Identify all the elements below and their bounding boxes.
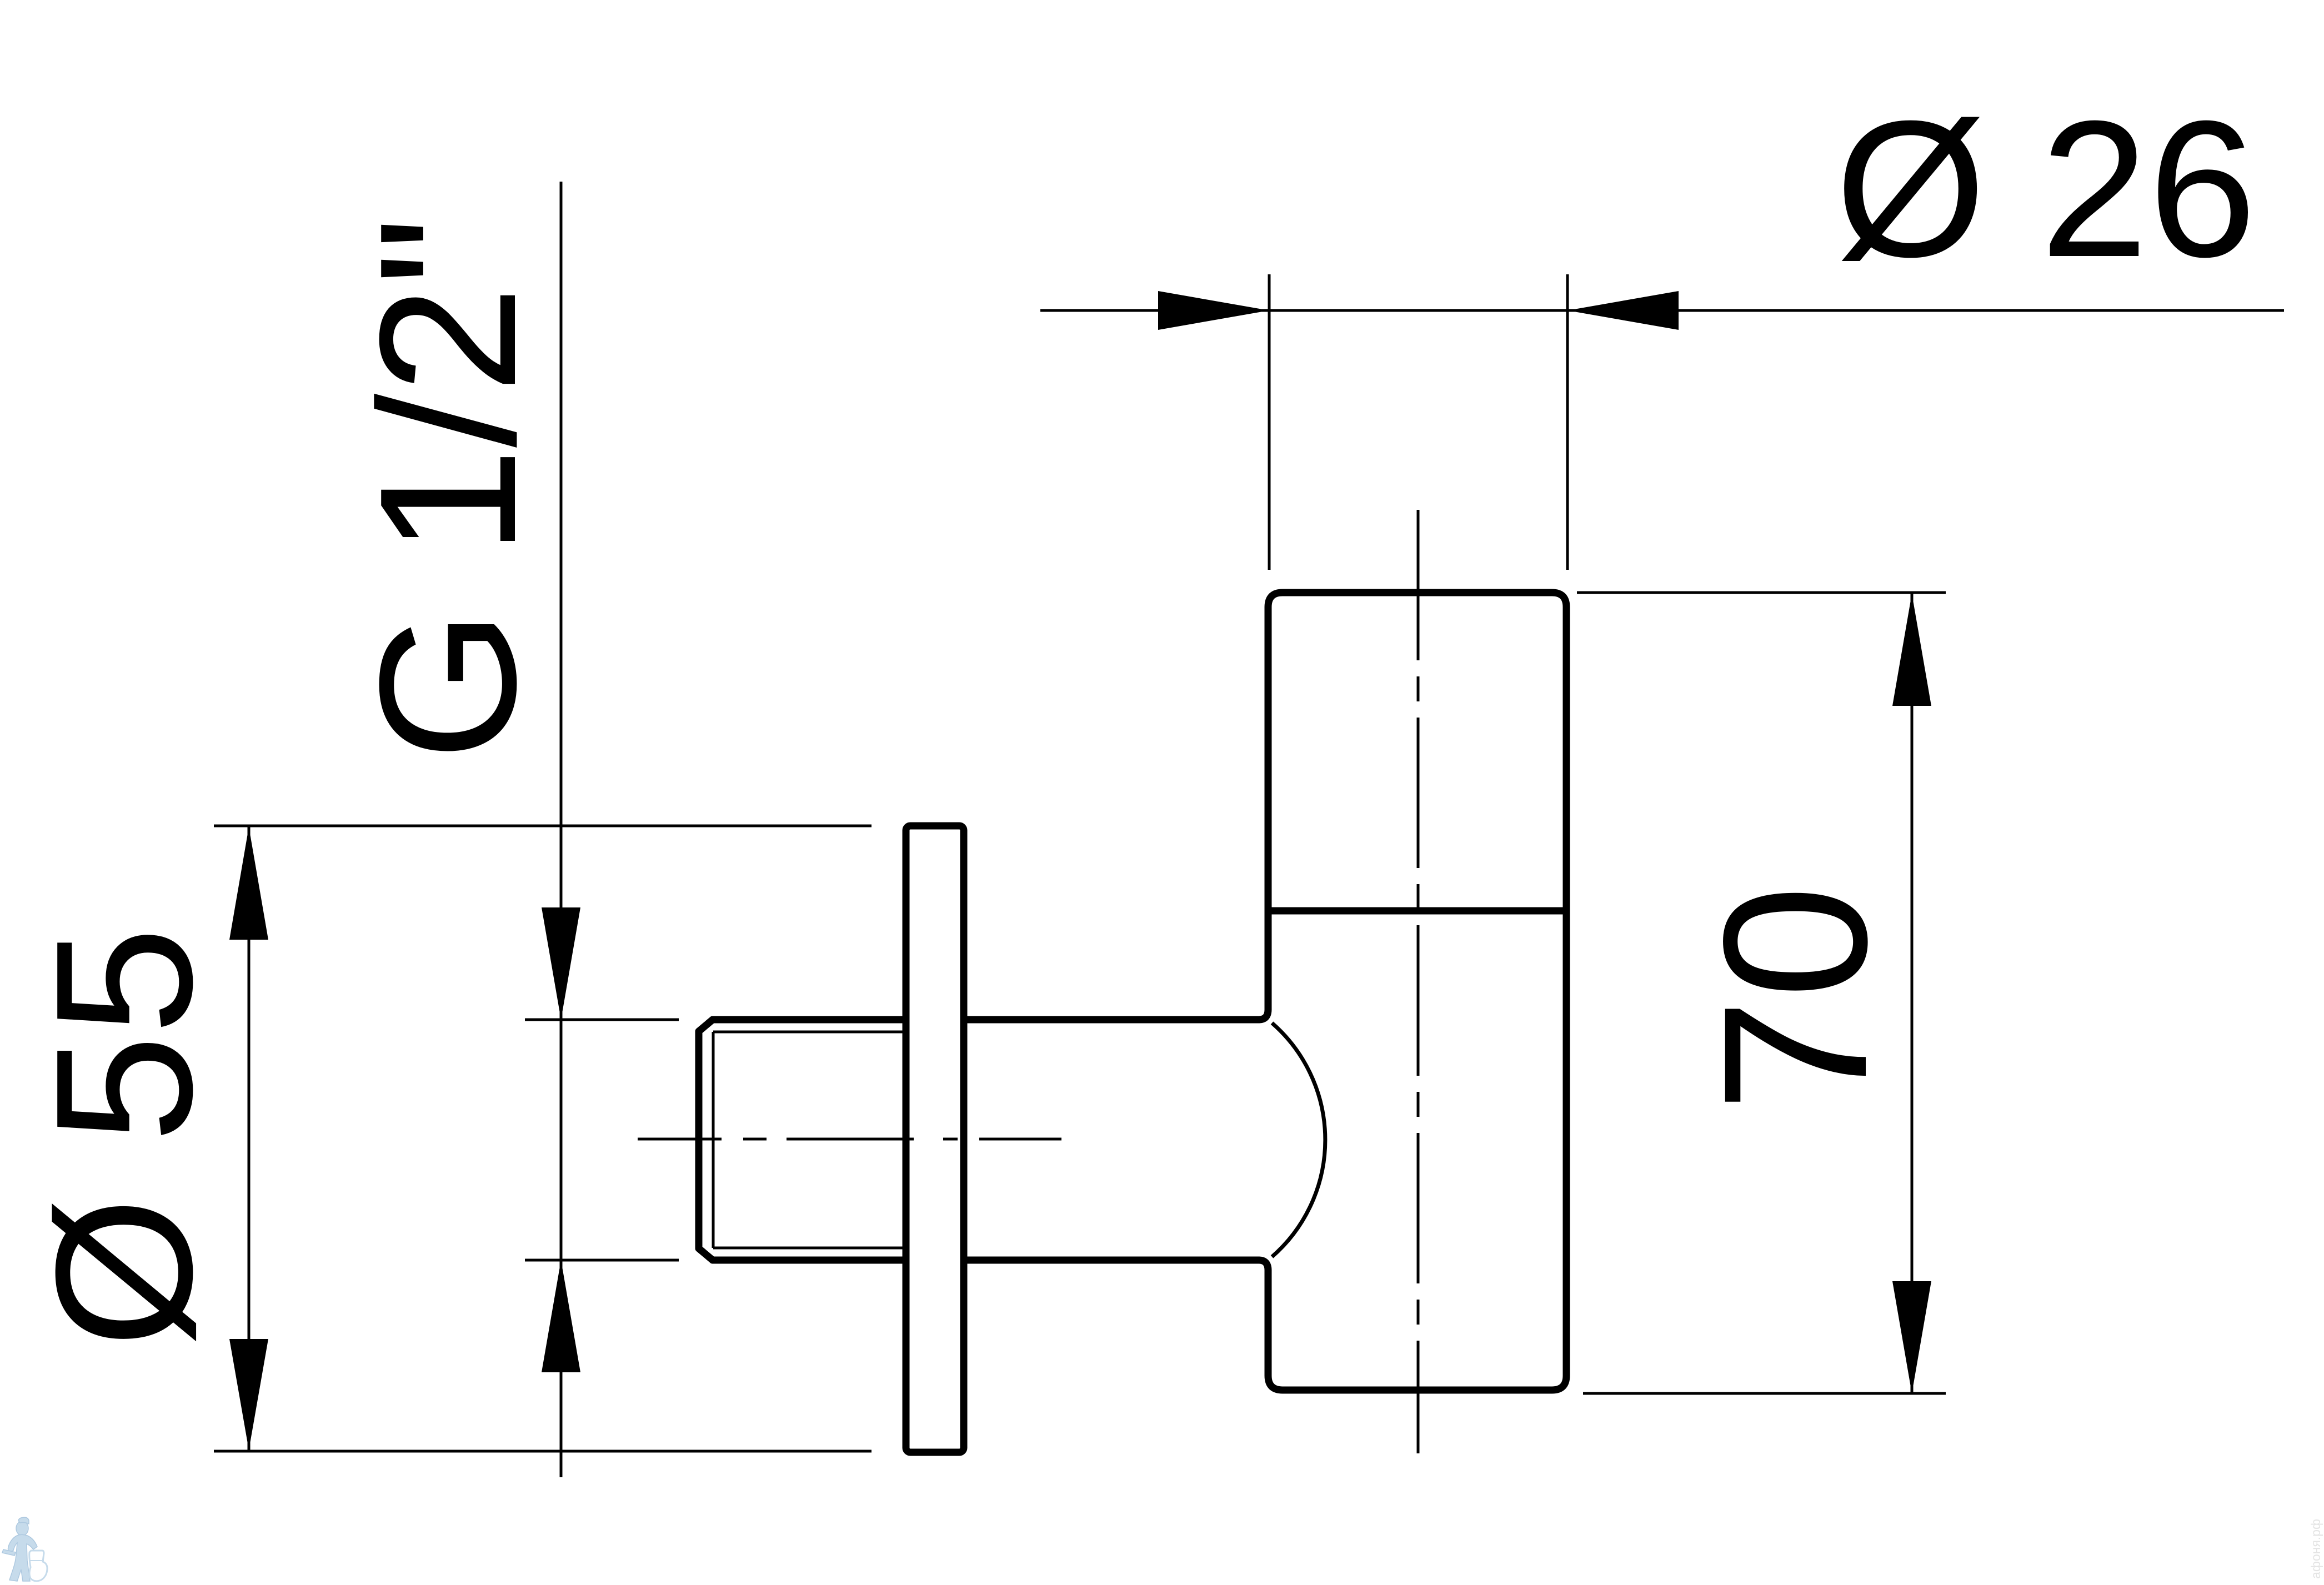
svg-text:Ø 26: Ø 26: [1835, 81, 2257, 298]
svg-text:70: 70: [1681, 885, 1909, 1112]
svg-text:афоня.рф: афоня.рф: [2308, 1519, 2323, 1579]
svg-text:G 1/2": G 1/2": [339, 217, 557, 761]
svg-text:Ø 55: Ø 55: [16, 927, 233, 1348]
